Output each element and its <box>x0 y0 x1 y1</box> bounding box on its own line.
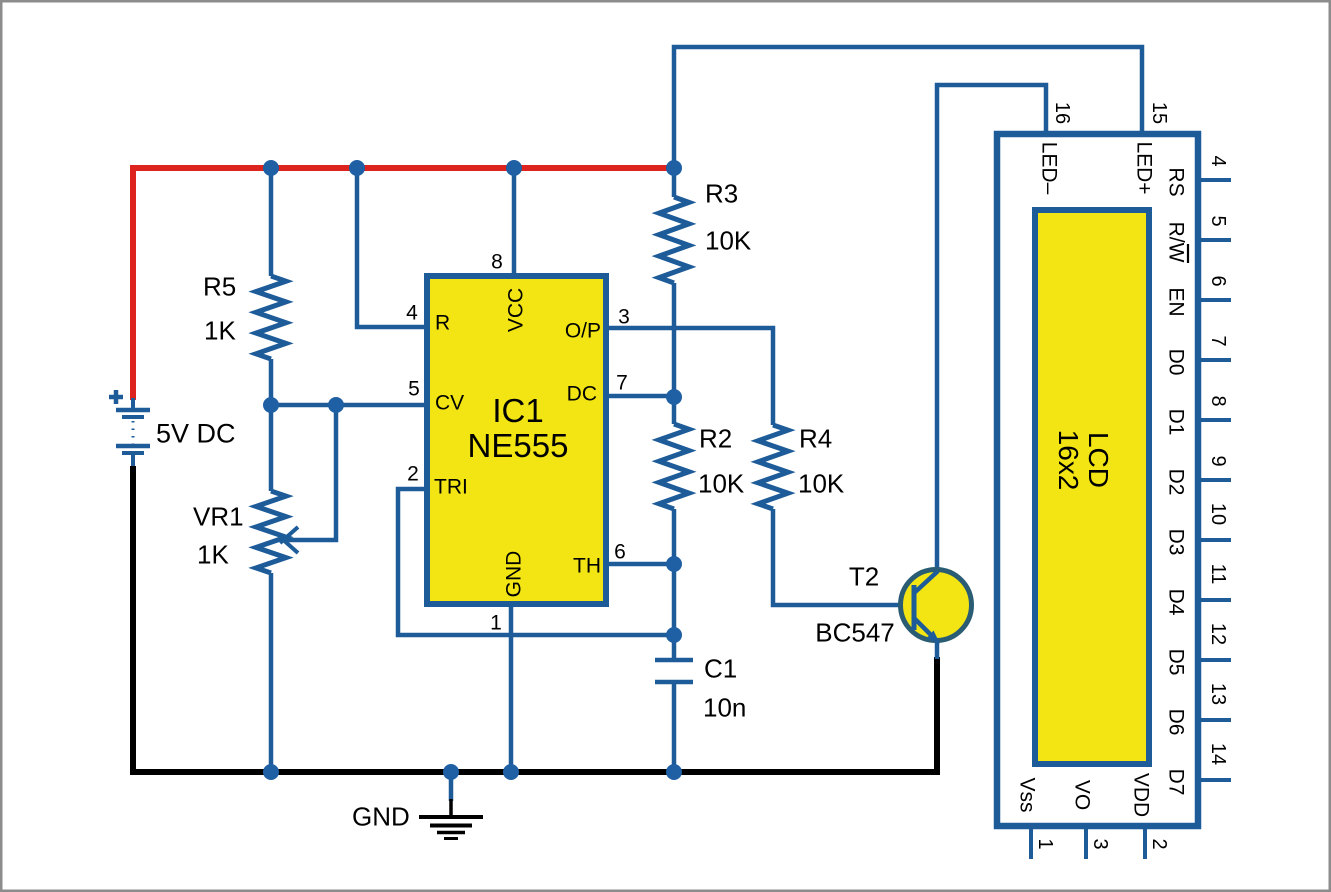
pin label RS <box>1164 167 1187 196</box>
label VR1 <box>193 501 244 531</box>
svg-text:Vss: Vss <box>1015 777 1038 812</box>
svg-text:R: R <box>435 312 450 335</box>
pin label CV <box>435 392 464 415</box>
pin label D3 <box>1164 529 1187 556</box>
label IC1 <box>492 392 543 429</box>
transistor T2 collector <box>913 571 938 594</box>
label NE555 <box>468 427 569 464</box>
svg-text:10K: 10K <box>705 225 752 255</box>
LCD pin 2 stub <box>1143 829 1147 859</box>
junction at 674,772 <box>666 764 682 780</box>
LCD pin 12 stub <box>1201 658 1231 662</box>
capacitor C1 <box>655 660 693 772</box>
wire GND stem <box>449 772 454 801</box>
junction at 674,564 <box>666 556 682 572</box>
LCD pin 5 stub <box>1201 238 1231 242</box>
pin label TH <box>573 555 601 578</box>
label R3 <box>705 178 738 208</box>
svg-text:D6: D6 <box>1164 709 1187 736</box>
label C1 <box>704 653 737 683</box>
junction at 271,772 <box>263 764 279 780</box>
svg-text:14: 14 <box>1207 743 1229 765</box>
svg-text:TRI: TRI <box>434 476 468 499</box>
label VR1 value 1K <box>197 539 229 569</box>
wire R2-C1 link <box>672 509 677 659</box>
LCD pin 14 stub <box>1201 778 1231 782</box>
svg-text:2: 2 <box>407 463 419 486</box>
pin number 12 <box>1207 623 1229 645</box>
label R2 <box>699 423 732 453</box>
svg-text:9: 9 <box>1207 455 1229 466</box>
pin label EN <box>1164 287 1187 316</box>
wire pin1 GND <box>509 606 514 772</box>
LCD pin 7 stub <box>1201 358 1231 362</box>
label LCD <box>1083 432 1114 488</box>
label R2 value 10K <box>698 468 745 498</box>
resistor R4 <box>758 425 788 509</box>
label LED- <box>1037 142 1060 195</box>
pin number 5 <box>408 378 420 401</box>
pin number 3 <box>618 306 630 329</box>
LCD pin 3 stub <box>1084 829 1088 859</box>
pin label VO <box>1070 780 1093 810</box>
junction at 357,168 <box>349 160 365 176</box>
svg-text:LCD: LCD <box>1083 432 1114 488</box>
svg-text:LED–: LED– <box>1037 142 1060 195</box>
pin number 8 <box>1207 395 1229 406</box>
wire pin7 DC <box>609 394 674 399</box>
wire pin8 VCC <box>512 168 517 274</box>
svg-text:16: 16 <box>1051 102 1073 124</box>
pin label TRI <box>434 476 468 499</box>
wire R5 top lead <box>269 168 274 276</box>
svg-text:D7: D7 <box>1164 769 1187 796</box>
svg-text:10: 10 <box>1207 503 1229 525</box>
junction at 511,772 <box>503 764 519 780</box>
pin number 1 <box>490 612 502 635</box>
pin label O/P <box>565 320 601 343</box>
pin label GND <box>503 551 526 598</box>
svg-text:7: 7 <box>1207 335 1229 346</box>
wire VR1 wiper <box>286 405 336 540</box>
pin number 2 <box>1148 838 1170 849</box>
wire output to LED+ (pin15) <box>674 47 1142 168</box>
svg-text:C1: C1 <box>704 653 737 683</box>
pin number 15 <box>1148 102 1170 124</box>
label R5 <box>203 271 236 301</box>
svg-text:VDD: VDD <box>1129 773 1152 817</box>
LCD module body <box>997 134 1198 826</box>
pin label D2 <box>1164 469 1187 496</box>
LCD pin 8 stub <box>1201 418 1231 422</box>
label R5 value 1K <box>204 315 236 345</box>
junction at 514,168 <box>506 160 522 176</box>
svg-text:T2: T2 <box>849 561 879 591</box>
svg-text:3: 3 <box>618 306 630 329</box>
svg-text:VCC: VCC <box>505 288 528 332</box>
svg-text:10K: 10K <box>798 468 845 498</box>
pin number 11 <box>1207 564 1229 585</box>
transistor T2 emitter <box>913 617 940 659</box>
pin label D7 <box>1164 769 1187 796</box>
wire pin3 O/P <box>609 328 773 425</box>
pin number 3 <box>1089 838 1111 849</box>
pin label D0 <box>1164 349 1187 376</box>
svg-text:5V DC: 5V DC <box>156 419 236 449</box>
pin number 5 <box>1207 215 1229 226</box>
wire pin6 TH <box>609 562 674 567</box>
svg-text:R3: R3 <box>705 178 738 208</box>
svg-text:6: 6 <box>614 541 626 564</box>
svg-text:1: 1 <box>1034 838 1056 849</box>
wire R4 to base <box>773 509 912 605</box>
svg-text:10K: 10K <box>698 468 745 498</box>
junction at 271,405 <box>263 397 279 413</box>
svg-text:GND: GND <box>352 801 410 831</box>
pin label Vss <box>1015 777 1038 812</box>
svg-text:D5: D5 <box>1164 649 1187 676</box>
svg-text:7: 7 <box>616 372 628 395</box>
svg-text:8: 8 <box>1207 395 1229 406</box>
pin label DC <box>567 383 597 406</box>
pin number 2 <box>407 463 419 486</box>
potentiometer VR1 <box>256 491 286 573</box>
wire pin5 CV <box>271 403 424 408</box>
pin label D4 <box>1164 589 1187 616</box>
svg-text:D1: D1 <box>1164 409 1187 436</box>
pin label VCC <box>505 288 528 332</box>
pin number 6 <box>1207 275 1229 286</box>
svg-text:1K: 1K <box>197 539 229 569</box>
label R3 value 10K <box>705 225 752 255</box>
wire pin4 R <box>357 168 424 327</box>
svg-text:R/W: R/W <box>1164 222 1187 263</box>
svg-text:NE555: NE555 <box>468 427 569 464</box>
svg-text:1: 1 <box>490 612 502 635</box>
svg-text:13: 13 <box>1207 683 1229 705</box>
label 16x2 <box>1053 430 1084 491</box>
pin number 13 <box>1207 683 1229 705</box>
svg-text:2: 2 <box>1148 838 1170 849</box>
battery 5V DC <box>116 398 150 468</box>
svg-text:IC1: IC1 <box>492 392 543 429</box>
LCD pin 9 stub <box>1201 478 1231 482</box>
wire +5V rail (red) <box>133 168 672 400</box>
svg-text:6: 6 <box>1207 275 1229 286</box>
LCD pin 11 stub <box>1201 598 1231 602</box>
svg-text:16x2: 16x2 <box>1053 430 1084 491</box>
pin number 8 <box>491 251 503 274</box>
svg-text:8: 8 <box>491 251 503 274</box>
svg-text:15: 15 <box>1148 102 1170 124</box>
label R4 <box>799 423 832 453</box>
svg-text:VR1: VR1 <box>193 501 244 531</box>
pin number 10 <box>1207 503 1229 525</box>
label 5V DC <box>156 419 236 449</box>
LCD pin 10 stub <box>1201 538 1231 542</box>
svg-text:DC: DC <box>567 383 597 406</box>
svg-text:LED+: LED+ <box>1132 141 1155 194</box>
svg-text:R2: R2 <box>699 423 732 453</box>
IC U1 NE555 body <box>427 276 606 604</box>
junction at 674,397 <box>666 389 682 405</box>
svg-text:CV: CV <box>435 392 464 415</box>
resistor R5 <box>256 276 286 359</box>
svg-text:D0: D0 <box>1164 349 1187 376</box>
LCD pin 6 stub <box>1201 298 1231 302</box>
LCD pin 1 stub <box>1029 829 1033 859</box>
svg-text:R5: R5 <box>203 271 236 301</box>
svg-text:1K: 1K <box>204 315 236 345</box>
wire VR1 bottom lead <box>269 573 274 772</box>
svg-text:GND: GND <box>503 551 526 598</box>
wire R3 top lead <box>672 166 677 197</box>
pin number 1 <box>1034 838 1056 849</box>
transistor T2 circle <box>901 570 972 641</box>
svg-text:D4: D4 <box>1164 589 1187 616</box>
LCD pin 4 stub <box>1201 178 1231 182</box>
label R4 value 10K <box>798 468 845 498</box>
pin number 16 <box>1051 102 1073 124</box>
LCD screen area <box>1035 210 1149 764</box>
pin label R/W <box>1164 222 1188 263</box>
pin number 7 <box>616 372 628 395</box>
junction at 674,635 <box>666 627 682 643</box>
battery plus terminal <box>109 390 123 404</box>
pin number 4 <box>1207 155 1229 166</box>
pin label D5 <box>1164 649 1187 676</box>
svg-text:VO: VO <box>1070 780 1093 810</box>
wire pin2 TRI <box>398 489 672 635</box>
junction at 271,168 <box>263 160 279 176</box>
resistor R2 <box>659 424 689 509</box>
resistor R3 <box>659 197 689 283</box>
pin number 9 <box>1207 455 1229 466</box>
pin number 6 <box>614 541 626 564</box>
pin number 7 <box>1207 335 1229 346</box>
label T2 <box>849 561 879 591</box>
svg-text:EN: EN <box>1164 287 1187 316</box>
svg-text:O/P: O/P <box>565 320 601 343</box>
junction at 674,168 <box>666 160 682 176</box>
pin label D1 <box>1164 409 1187 436</box>
svg-text:D2: D2 <box>1164 469 1187 496</box>
VR1 wiper arrowhead <box>280 527 298 553</box>
wire R5-VR1 link <box>269 359 274 491</box>
wire collector to LED- (pin16) <box>937 85 1046 571</box>
label LED+ <box>1132 141 1155 194</box>
label C1 value 10n <box>703 692 746 722</box>
svg-text:10n: 10n <box>703 692 746 722</box>
pin label D6 <box>1164 709 1187 736</box>
svg-text:5: 5 <box>408 378 420 401</box>
svg-text:TH: TH <box>573 555 601 578</box>
junction at 336,405 <box>328 397 344 413</box>
pin number 14 <box>1207 743 1229 765</box>
svg-text:RS: RS <box>1164 167 1187 196</box>
svg-text:11: 11 <box>1207 564 1229 585</box>
pin label VDD <box>1129 773 1152 817</box>
junction at 451,772 <box>443 764 459 780</box>
svg-text:12: 12 <box>1207 623 1229 645</box>
label GND <box>352 801 410 831</box>
svg-text:5: 5 <box>1207 215 1229 226</box>
transistor T2 base bar <box>912 585 917 630</box>
svg-text:4: 4 <box>406 302 418 325</box>
svg-text:D3: D3 <box>1164 529 1187 556</box>
pin label R <box>435 312 450 335</box>
label BC547 <box>815 617 895 647</box>
LCD pin 13 stub <box>1201 718 1231 722</box>
svg-text:BC547: BC547 <box>815 617 895 647</box>
svg-text:4: 4 <box>1207 155 1229 166</box>
svg-text:R4: R4 <box>799 423 832 453</box>
ground symbol <box>419 799 483 839</box>
svg-text:3: 3 <box>1089 838 1111 849</box>
pin number 4 <box>406 302 418 325</box>
wire R3-R2 link <box>672 283 677 424</box>
wire ground path (black) <box>133 466 937 772</box>
